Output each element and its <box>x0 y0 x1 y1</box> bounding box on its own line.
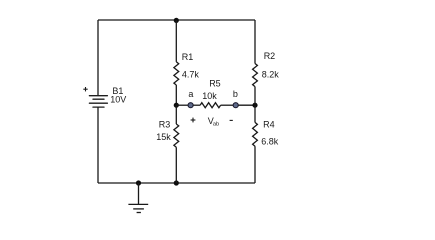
node a <box>188 103 193 108</box>
junction bottom (R3 branch to bottom wire) <box>174 180 179 185</box>
svg-text:ab: ab <box>213 122 219 128</box>
svg-text:R4: R4 <box>263 120 275 130</box>
svg-text:10V: 10V <box>110 94 126 104</box>
resistor R5 <box>200 103 221 108</box>
wire R2 to node junction <box>254 87 256 106</box>
resistor R3 <box>174 124 179 147</box>
wire left upper (top wire down to battery + plate) <box>97 20 99 96</box>
wire bottom <box>98 182 255 184</box>
wire node a to R5 <box>193 104 200 106</box>
wire left lower (battery - plate down to bottom wire) <box>97 107 99 183</box>
ground <box>128 183 148 213</box>
resistor R1 <box>174 62 179 85</box>
battery B1 plus sign <box>83 87 87 91</box>
wire right upper (top wire down to R2) <box>254 20 256 64</box>
svg-text:R5: R5 <box>209 79 221 89</box>
wire middle (R1 to node-a junction) <box>175 85 177 105</box>
junction node wire right (node wire to right branch) <box>252 103 257 108</box>
wire top <box>98 19 255 21</box>
svg-text:6.8k: 6.8k <box>261 137 279 147</box>
svg-text:8.2k: 8.2k <box>262 69 280 79</box>
wire middle (node junction down to R3) <box>175 105 177 124</box>
wire right (node junction down to R4) <box>254 105 256 122</box>
svg-text:4.7k: 4.7k <box>182 69 200 79</box>
label Vab minus sign <box>230 119 233 121</box>
svg-text:R3: R3 <box>159 120 171 130</box>
junction ground (ground stub to bottom wire) <box>136 180 141 185</box>
svg-text:R1: R1 <box>182 52 194 62</box>
wire junction to node a <box>176 104 190 106</box>
wire middle upper (top junction down to R1) <box>175 20 177 62</box>
battery B1 <box>89 96 107 107</box>
resistor R4 <box>253 122 258 146</box>
svg-text:a: a <box>188 89 193 99</box>
wire node b to right branch <box>238 104 255 106</box>
svg-text:b: b <box>233 89 238 99</box>
resistor R2 <box>253 64 258 87</box>
junction top (middle branch to top wire) <box>174 18 179 23</box>
node b <box>233 103 238 108</box>
svg-text:15k: 15k <box>156 132 171 142</box>
wire R5 to node b <box>221 104 236 106</box>
label Vab plus sign <box>191 118 196 123</box>
wire middle lower (R3 down to bottom junction) <box>175 147 177 183</box>
svg-text:10k: 10k <box>202 91 217 101</box>
wire right lower (R4 down to bottom wire) <box>254 146 256 183</box>
svg-text:R2: R2 <box>264 51 276 61</box>
junction node wire left (middle branch to node wire) <box>174 103 179 108</box>
